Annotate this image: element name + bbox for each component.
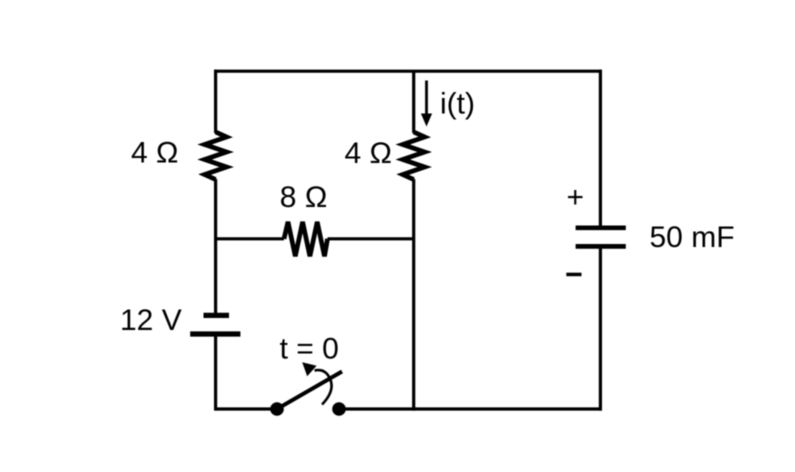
svg-text:4 Ω: 4 Ω bbox=[345, 137, 392, 170]
switch arrow head bbox=[302, 362, 316, 376]
wire top horizontal bbox=[214, 70, 602, 73]
wire right vertical lower (C1 to bottom rail) bbox=[599, 246, 602, 410]
svg-text:t = 0: t = 0 bbox=[280, 332, 339, 365]
battery V1 12V short plate (top) bbox=[204, 313, 230, 318]
wire middle horizontal right (R3 to middle branch) bbox=[328, 237, 414, 240]
current arrow i(t) bbox=[421, 81, 432, 127]
capacitor C1 bottom plate bbox=[576, 244, 626, 249]
capacitor C1 top plate bbox=[576, 225, 626, 230]
wire left vertical lower (battery to bottom rail) bbox=[214, 334, 217, 411]
switch node left (dot) bbox=[270, 402, 284, 416]
resistor R2 4-ohm (middle branch) bbox=[403, 132, 425, 180]
svg-text:50 mF: 50 mF bbox=[650, 221, 735, 254]
switch node right (dot) bbox=[332, 402, 346, 416]
svg-text:8 Ω: 8 Ω bbox=[280, 181, 327, 214]
wire left vertical upper (top rail to R1) bbox=[214, 70, 217, 133]
wire right vertical upper (top rail to C1) bbox=[599, 70, 602, 228]
svg-text:+: + bbox=[567, 181, 585, 214]
label minus polarity bbox=[566, 273, 581, 277]
svg-text:4 Ω: 4 Ω bbox=[131, 137, 178, 170]
svg-text:i(t): i(t) bbox=[440, 88, 475, 121]
wire bottom left (battery branch to switch) bbox=[216, 407, 277, 410]
switch actuation arc bbox=[315, 370, 332, 404]
wire middle horizontal left (node to R3) bbox=[216, 237, 284, 240]
switch blade bbox=[277, 372, 342, 410]
wire middle vertical upper (top rail to R2) bbox=[412, 71, 415, 133]
resistor R3 8-ohm (middle horizontal) bbox=[284, 222, 328, 256]
wire bottom right (switch to right branch) bbox=[339, 407, 602, 410]
resistor R1 4-ohm (left branch) bbox=[205, 132, 227, 180]
svg-text:12 V: 12 V bbox=[120, 304, 182, 337]
wire left vertical middle (R1 to battery) bbox=[214, 179, 217, 314]
wire middle vertical lower (R2 to bottom rail) bbox=[412, 179, 415, 411]
battery V1 12V long plate (bottom) bbox=[190, 331, 240, 336]
